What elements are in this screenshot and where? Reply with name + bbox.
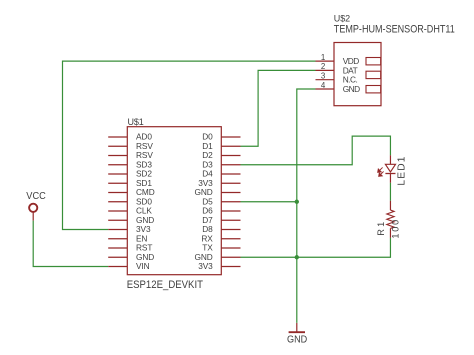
wire net D3 to LED1 anode bbox=[241, 136, 391, 165]
U$1 left pin 4 (SD3) bbox=[108, 159, 152, 169]
U$1 left pin 3 (RSV) bbox=[108, 150, 153, 160]
supply symbol VCC bbox=[26, 191, 46, 221]
U$1 left pin 9 (CLK) bbox=[108, 206, 152, 216]
U$1 right pin 10 (D7) bbox=[202, 215, 240, 225]
svg-text:3V3: 3V3 bbox=[198, 261, 213, 271]
svg-text:GND: GND bbox=[287, 334, 307, 345]
svg-text:3: 3 bbox=[321, 72, 326, 81]
U$1 right pin 1 (D0) bbox=[202, 132, 240, 142]
U$1 left pin 13 (RST) bbox=[108, 243, 152, 253]
ground symbol GND bbox=[287, 323, 307, 346]
U$1 left pin 12 (EN) bbox=[108, 233, 147, 243]
U$1 right pin 11 (D8) bbox=[202, 224, 240, 234]
LED LED1 bbox=[378, 155, 396, 183]
U$1 left pin 14 (GND) bbox=[108, 252, 154, 262]
U$2 reference label bbox=[334, 13, 350, 23]
U$1 right pin 4 (D3) bbox=[202, 159, 240, 169]
wire net DAT: U$2 pin2 to U$1 D1 bbox=[241, 70, 316, 146]
svg-text:100: 100 bbox=[391, 220, 401, 239]
U$1 value label ESP12E_DEVKIT bbox=[127, 279, 204, 291]
junction at GND rail / D5 bbox=[295, 200, 299, 204]
U$1 left pin 10 (GND) bbox=[108, 215, 154, 225]
svg-text:U$1: U$1 bbox=[128, 117, 144, 127]
U$1 left pin 7 (CMD) bbox=[108, 187, 155, 197]
svg-text:GND: GND bbox=[343, 84, 360, 94]
wire net GND: U$1 D5 to GND rail bbox=[241, 201, 297, 203]
svg-text:VCC: VCC bbox=[26, 191, 46, 202]
U$1 right pin 13 (TX) bbox=[202, 243, 240, 253]
U$2 pin 2 (DAT) bbox=[316, 62, 358, 75]
sensor U$2 TEMP-HUM-SENSOR-DHT11 body bbox=[334, 43, 381, 106]
U$1 right pin 12 (RX) bbox=[201, 233, 240, 243]
U$1 left pin 6 (SD1) bbox=[108, 178, 152, 188]
svg-text:1: 1 bbox=[321, 53, 325, 62]
U$1 right pin 15 (3V3) bbox=[198, 261, 240, 271]
svg-text:VIN: VIN bbox=[136, 261, 150, 271]
U$2 value label TEMP-HUM-SENSOR-DHT11 bbox=[334, 23, 455, 35]
U$1 right pin 8 (D5) bbox=[202, 196, 240, 206]
R1 reference label (rotated) bbox=[376, 222, 386, 236]
wire net VCC: VCC symbol to U$1 VIN bbox=[33, 221, 108, 267]
U$2 pin 4 (GND) bbox=[316, 81, 361, 94]
svg-text:U$2: U$2 bbox=[334, 13, 350, 23]
U$1 left pin 5 (SD2) bbox=[108, 169, 152, 179]
svg-text:2: 2 bbox=[321, 62, 325, 71]
wire net GND rail: U$2 pin4 down to GND symbol bbox=[297, 89, 316, 323]
wire net GND: U$1 right GND to R1 bottom (crosses rail) bbox=[241, 238, 391, 257]
U$1 right pin 3 (D2) bbox=[202, 150, 240, 160]
svg-text:TEMP-HUM-SENSOR-DHT11: TEMP-HUM-SENSOR-DHT11 bbox=[334, 23, 455, 35]
U$1 right pin 6 (3V3) bbox=[198, 178, 240, 188]
U$1 right pin 7 (GND) bbox=[195, 187, 241, 197]
U$1 right pin 14 (GND) bbox=[195, 252, 241, 262]
U$2 package pin pads bbox=[366, 58, 381, 93]
resistor R1 bbox=[387, 201, 394, 238]
R1 value label 100 (rotated) bbox=[391, 220, 401, 239]
LED1 reference label (rotated) bbox=[396, 156, 407, 185]
U$1 left pin 11 (3V3) bbox=[108, 224, 151, 234]
U$1 right pin 9 (D6) bbox=[202, 206, 240, 216]
U$1 left pin 2 (RSV) bbox=[108, 141, 153, 151]
U$1 left pin 15 (VIN) bbox=[108, 261, 149, 271]
U$2 pin 3 (N.C.) bbox=[316, 72, 358, 85]
U$1 right pin 2 (D1) bbox=[202, 141, 240, 151]
svg-text:LED1: LED1 bbox=[396, 156, 407, 185]
U$1 reference label bbox=[128, 117, 144, 127]
junction at GND rail / GND wire bbox=[295, 255, 299, 259]
wire LED1 cathode to R1 top bbox=[389, 183, 391, 201]
svg-text:R1: R1 bbox=[376, 222, 386, 236]
U$2 pin 1 (VDD) bbox=[316, 53, 360, 66]
svg-text:ESP12E_DEVKIT: ESP12E_DEVKIT bbox=[127, 279, 204, 291]
svg-text:4: 4 bbox=[321, 81, 326, 90]
wire net VDD: U$2 pin1 to U$1 3V3 bbox=[63, 61, 316, 229]
U$1 right pin 5 (D4) bbox=[202, 169, 240, 179]
module U$1 ESP12E_DEVKIT body bbox=[127, 127, 221, 275]
U$1 left pin 1 (AD0) bbox=[108, 132, 152, 142]
U$1 left pin 8 (SD0) bbox=[108, 196, 152, 206]
